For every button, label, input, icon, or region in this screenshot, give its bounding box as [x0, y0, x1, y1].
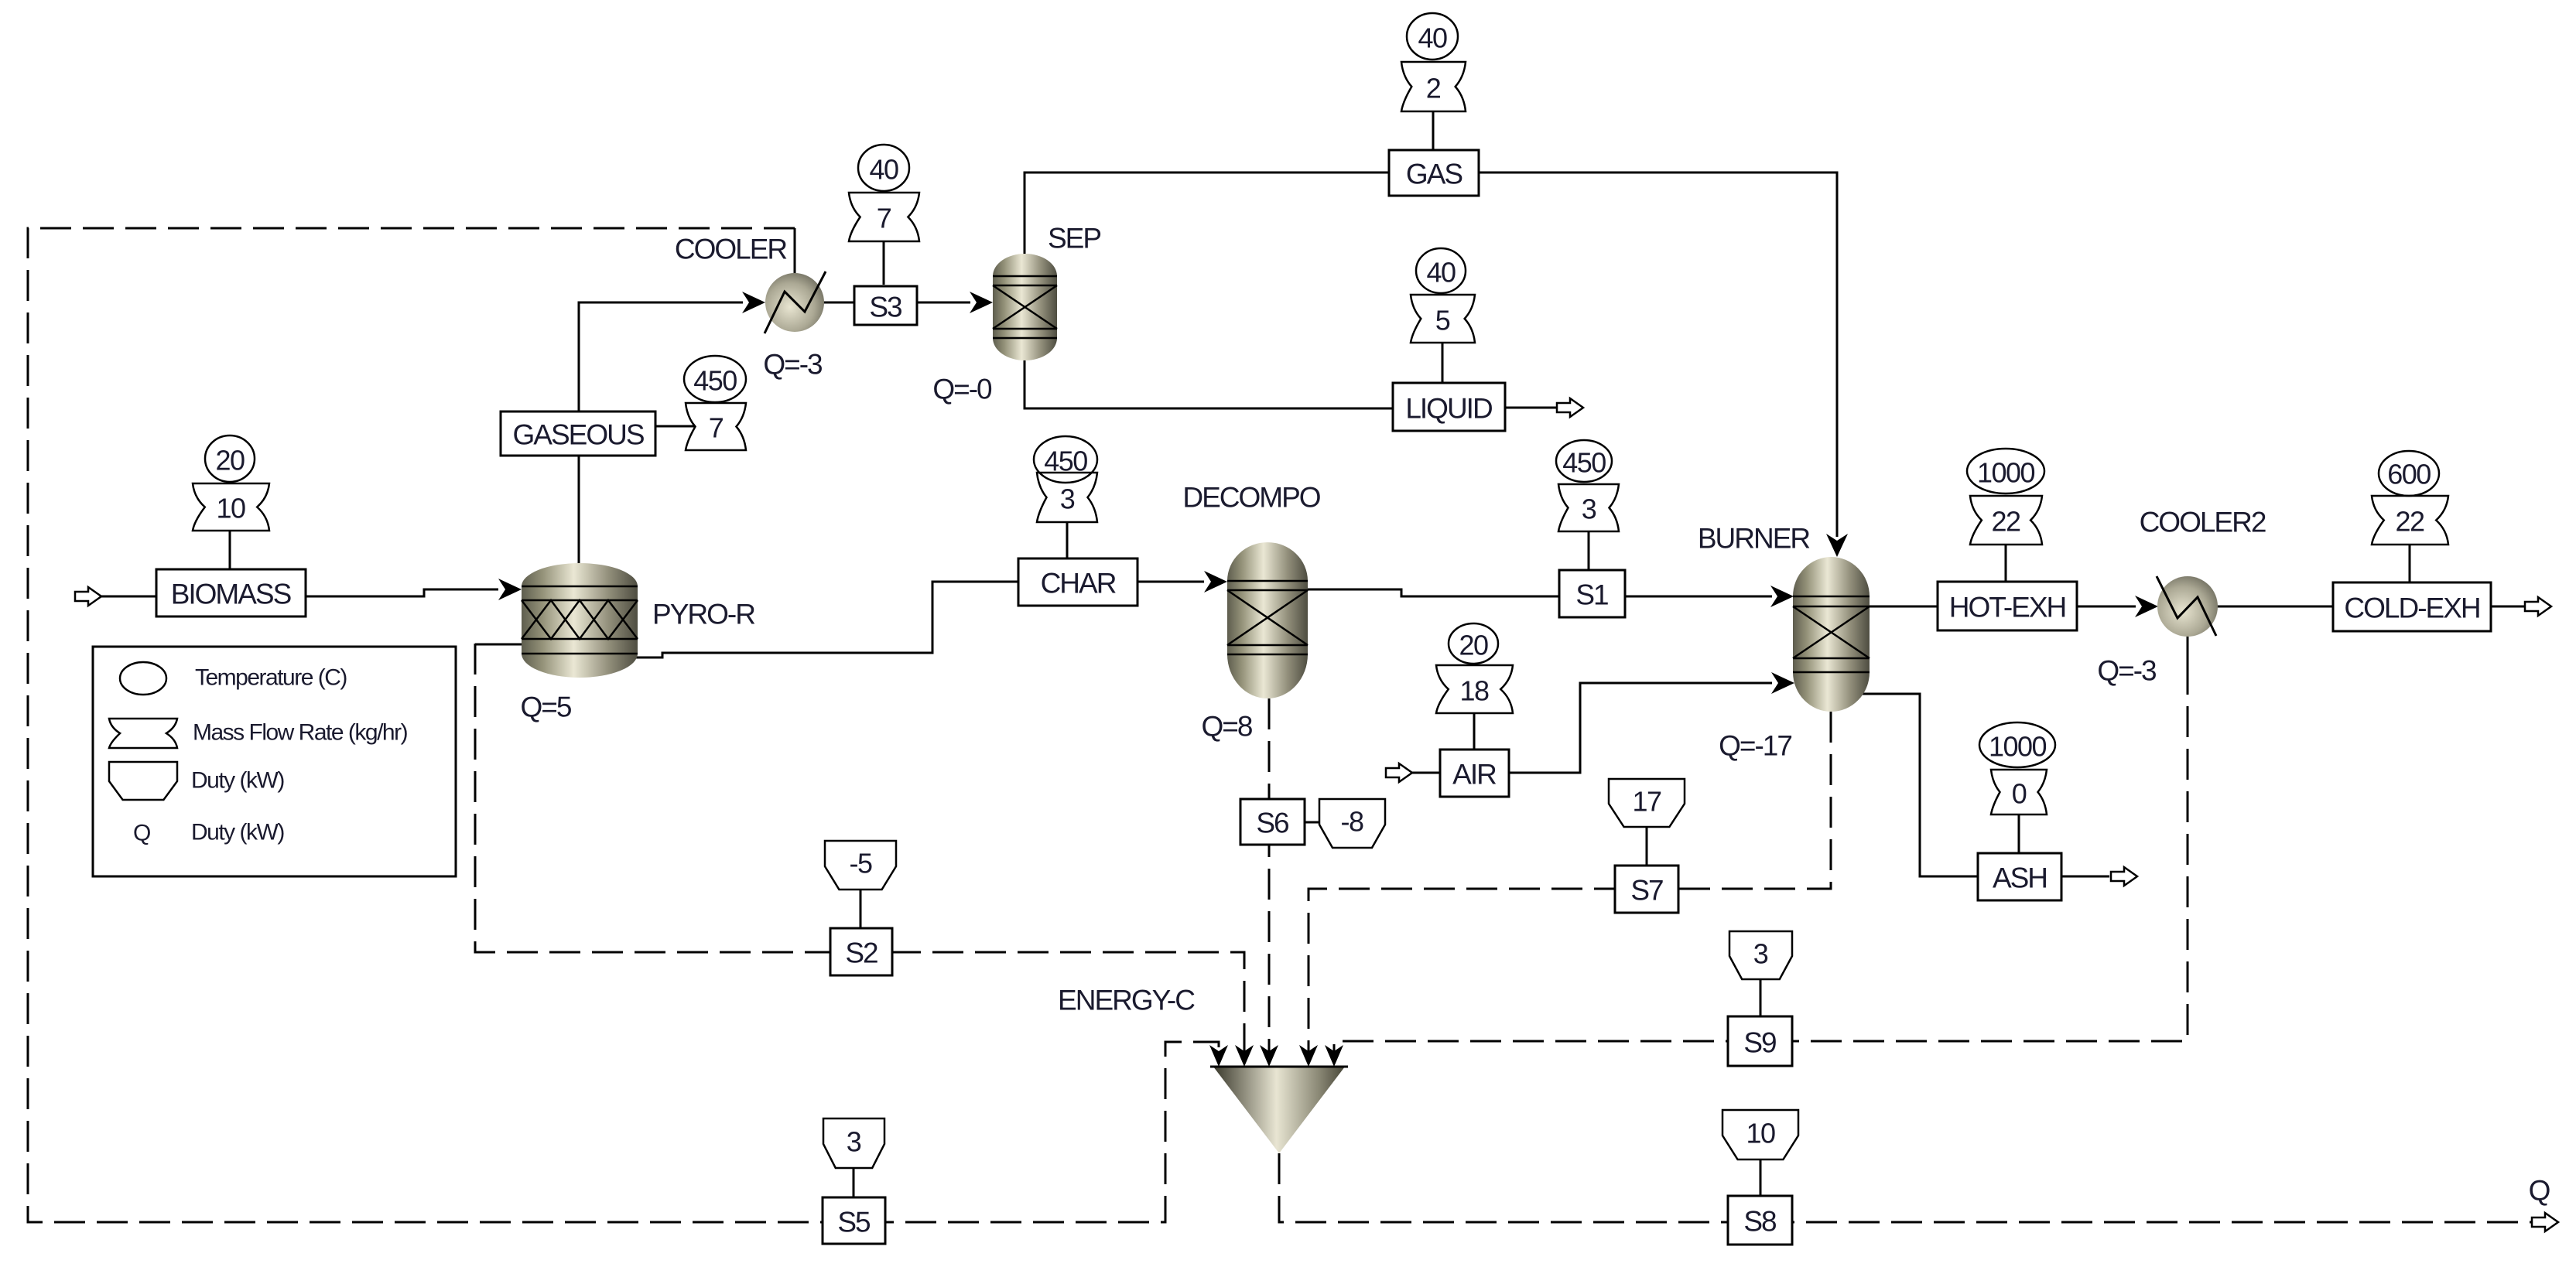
arrow out COLD-EXH — [2525, 597, 2551, 616]
svg-text:Q=8: Q=8 — [1202, 711, 1252, 743]
wire BIOMASS to PYRO-R — [306, 589, 498, 596]
wire COOLER energy stub — [794, 228, 796, 274]
arrow into COOLER — [742, 292, 765, 313]
wire S6 to -8 connector — [1305, 821, 1319, 824]
svg-text:GAS: GAS — [1406, 159, 1462, 190]
svg-text:40: 40 — [1418, 22, 1447, 54]
wire flag stem S3 — [883, 241, 885, 285]
wire energy S9: COOLER2 to ENERGY-C — [1334, 664, 2188, 1054]
wire BURNER to HOT-EXH — [1868, 606, 1938, 608]
wire flag stem S5 — [853, 1168, 855, 1197]
arrow into ENERGY-C 2 — [1235, 1045, 1254, 1067]
svg-text:5: 5 — [1435, 305, 1450, 336]
arrow into ENERGY-C 5 — [1325, 1045, 1343, 1067]
svg-text:Q=-3: Q=-3 — [763, 349, 822, 381]
svg-text:Q: Q — [133, 821, 150, 846]
flag temperature 450 (GASEOUS) — [684, 356, 746, 402]
wire flag stem CHAR — [1066, 522, 1069, 558]
legend duty symbol — [109, 762, 177, 800]
svg-text:20: 20 — [1459, 630, 1488, 661]
wire flag stem S2 — [860, 890, 862, 928]
flag massflow 3 (CHAR) — [1037, 473, 1097, 522]
flag temperature 600 (COLD-EXH) — [2379, 451, 2439, 496]
svg-text:Q: Q — [2529, 1175, 2550, 1207]
flag temperature 40 (GAS) — [1407, 13, 1458, 60]
arrow out ASH — [2111, 867, 2137, 886]
wire flag stem HOT-EXH — [2005, 545, 2007, 582]
svg-text:3: 3 — [1582, 493, 1596, 525]
flag temperature 40 (LIQUID) — [1416, 248, 1466, 293]
svg-text:S6: S6 — [1256, 808, 1288, 839]
svg-text:S1: S1 — [1575, 579, 1608, 611]
svg-text:-8: -8 — [1340, 806, 1363, 838]
svg-text:40: 40 — [869, 154, 898, 186]
svg-text:S8: S8 — [1743, 1206, 1776, 1238]
node AIR box — [1440, 750, 1509, 797]
svg-text:Q=-17: Q=-17 — [1719, 730, 1791, 762]
wire PYRO-R to CHAR — [635, 582, 1018, 657]
arrow out Q — [2532, 1213, 2558, 1231]
wire energy S2: PYRO-R to ENERGY-C — [475, 644, 1244, 1054]
arrow feed AIR — [1386, 763, 1412, 782]
wire S3 to SEP — [917, 302, 970, 304]
svg-text:DECOMPO: DECOMPO — [1182, 482, 1320, 514]
heater COOLER2 — [2157, 576, 2218, 637]
svg-text:Q=-3: Q=-3 — [2097, 655, 2156, 687]
wire AIR to BURNER — [1509, 683, 1772, 773]
svg-text:COOLER2: COOLER2 — [2140, 507, 2266, 538]
wire energy S6: DECOMPO to ENERGY-C — [1268, 698, 1271, 1054]
svg-text:LIQUID: LIQUID — [1405, 393, 1492, 425]
wire flag stem COLD-EXH — [2409, 545, 2411, 582]
wire flag stem S9 — [1760, 979, 1762, 1016]
svg-text:Q=-0: Q=-0 — [932, 374, 992, 405]
arrow out LIQUID — [1557, 398, 1583, 417]
svg-text:Temperature (C): Temperature (C) — [195, 665, 347, 691]
wire flag stem S7 — [1646, 827, 1648, 866]
wire energy S8: ENERGY-C output to Q — [1279, 1153, 2532, 1222]
arrow into PYRO-R — [498, 579, 522, 600]
svg-text:S7: S7 — [1630, 875, 1663, 907]
wire COOLER to S3 — [823, 302, 854, 304]
wire BURNER to ASH — [1859, 694, 1978, 876]
wire GASEOUS to COOLER — [579, 302, 743, 412]
svg-text:S5: S5 — [837, 1207, 871, 1238]
svg-text:40: 40 — [1426, 257, 1456, 289]
flag massflow 18 (AIR) — [1436, 665, 1513, 713]
legend temperature symbol — [120, 662, 166, 695]
arrow into ENERGY-C 4 — [1299, 1045, 1318, 1067]
svg-text:22: 22 — [1991, 506, 2020, 538]
svg-text:Duty (kW): Duty (kW) — [191, 768, 284, 794]
wire COLD-EXH outlet — [2491, 606, 2524, 608]
node S9 box — [1728, 1016, 1792, 1066]
wire HOT-EXH to COOLER2 — [2077, 606, 2136, 608]
node S3 box — [854, 286, 917, 325]
svg-text:1000: 1000 — [1977, 457, 2035, 489]
svg-text:20: 20 — [215, 445, 245, 476]
wire BIOMASS feed — [101, 596, 156, 598]
svg-text:7: 7 — [709, 412, 724, 444]
svg-text:S9: S9 — [1743, 1027, 1776, 1059]
wire flag stem S8 — [1760, 1159, 1762, 1196]
node S5 box — [823, 1197, 885, 1244]
wire SEP bottom to LIQUID — [1025, 352, 1393, 408]
wire ASH outlet — [2061, 876, 2109, 878]
svg-text:450: 450 — [1044, 446, 1087, 477]
reactor BURNER — [1793, 557, 1870, 712]
svg-text:7: 7 — [877, 203, 891, 234]
flag massflow 22 (HOT-EXH) — [1970, 496, 2042, 545]
svg-text:COLD-EXH: COLD-EXH — [2344, 593, 2479, 624]
legend box — [93, 647, 456, 876]
arrow into BURNER top — [1826, 534, 1848, 557]
content — [28, 228, 2532, 1222]
wire S1 to BURNER — [1625, 596, 1772, 598]
wire PYRO-R left outlet to S2 — [475, 644, 523, 646]
flag duty -8 (S6) — [1319, 799, 1385, 848]
arrow into COOLER2 — [2135, 596, 2158, 617]
svg-text:2: 2 — [1426, 73, 1441, 104]
node BIOMASS box — [156, 569, 306, 616]
arrow into ENERGY-C 1 — [1209, 1045, 1228, 1067]
flag temperature 20 (BIOMASS) — [205, 435, 255, 482]
flag massflow 3 (S1) — [1558, 484, 1619, 531]
flag duty -5 (S2) — [825, 841, 896, 890]
svg-text:PYRO-R: PYRO-R — [652, 599, 754, 630]
flag massflow 10 (BIOMASS) — [193, 483, 269, 531]
flag temperature 20 (AIR) — [1449, 623, 1498, 664]
flag massflow 7 (S3) — [849, 193, 919, 241]
flag temperature 1000 (HOT-EXH) — [1967, 449, 2044, 493]
separator SEP — [993, 254, 1057, 360]
mixer ENERGY-C — [1213, 1067, 1345, 1153]
arrow into SEP — [970, 292, 993, 313]
svg-text:ENERGY-C: ENERGY-C — [1058, 985, 1195, 1016]
wire AIR feed — [1412, 772, 1440, 774]
flag duty 17 (S7) — [1609, 779, 1685, 827]
node S8 box — [1728, 1196, 1792, 1245]
svg-text:Duty (kW): Duty (kW) — [191, 820, 284, 845]
flag duty 3 (S5) — [823, 1118, 884, 1168]
reactor PYRO-R — [522, 563, 638, 678]
wire CHAR to DECOMPO — [1137, 581, 1204, 583]
svg-text:3: 3 — [1060, 483, 1075, 515]
svg-text:Mass Flow Rate (kg/hr): Mass Flow Rate (kg/hr) — [193, 720, 408, 746]
node ASH box — [1978, 853, 2061, 900]
node LIQUID box — [1393, 383, 1505, 431]
svg-text:Q=5: Q=5 — [521, 692, 572, 723]
svg-text:SEP: SEP — [1048, 223, 1100, 254]
wire COOLER2 energy stub — [2187, 636, 2189, 664]
node GAS box — [1389, 150, 1479, 196]
arrow feed BIOMASS — [75, 587, 101, 606]
svg-text:0: 0 — [2012, 778, 2027, 810]
svg-text:COOLER: COOLER — [675, 234, 787, 265]
wire flag stem ASH — [2018, 814, 2020, 853]
arrowheads solid — [498, 292, 2158, 1067]
wire LIQUID outlet — [1505, 407, 1557, 409]
svg-text:HOT-EXH: HOT-EXH — [1949, 592, 2065, 623]
flag massflow 2 (GAS) — [1401, 62, 1466, 111]
wire PYRO-R top to GASEOUS — [578, 456, 580, 565]
wire DECOMPO to S1 — [1306, 589, 1559, 596]
node S7 box — [1615, 866, 1678, 913]
svg-text:BURNER: BURNER — [1698, 523, 1810, 555]
svg-text:S3: S3 — [869, 292, 901, 323]
flag duty 3 (S9) — [1729, 931, 1792, 979]
node COLD-EXH box — [2333, 582, 2491, 631]
open arrows — [75, 398, 2558, 1231]
svg-text:1000: 1000 — [1989, 731, 2047, 763]
wire flag stem GAS — [1432, 111, 1435, 150]
wire flag stem S1 — [1588, 531, 1590, 570]
node S6 box — [1240, 799, 1305, 845]
svg-text:3: 3 — [847, 1126, 861, 1158]
arrow into DECOMPO — [1204, 571, 1227, 593]
legend massflow symbol — [109, 719, 177, 748]
flag massflow 0 (ASH) — [1991, 770, 2047, 814]
flag temperature 450 (CHAR) — [1034, 436, 1097, 483]
wire flag stem BIOMASS — [229, 531, 231, 569]
arrow into ENERGY-C 3 — [1260, 1045, 1278, 1067]
flag temperature 1000 (ASH) — [1979, 722, 2055, 767]
node HOT-EXH box — [1938, 582, 2077, 630]
svg-text:10: 10 — [216, 493, 245, 524]
node CHAR box — [1018, 558, 1137, 606]
node GASEOUS box — [501, 412, 655, 456]
flag massflow 22 (COLD-EXH) — [2372, 496, 2448, 545]
flag temperature 40 (S3) — [858, 145, 909, 191]
svg-text:450: 450 — [1562, 447, 1606, 479]
node S1 box — [1559, 570, 1625, 617]
flag massflow 5 (LIQUID) — [1411, 295, 1475, 343]
wire flag stem LIQUID — [1442, 343, 1444, 383]
svg-text:ASH: ASH — [1993, 862, 2047, 894]
svg-text:S2: S2 — [845, 937, 877, 969]
wire GAS to BURNER top — [1479, 172, 1837, 537]
wire flag stem GASEOUS — [655, 425, 696, 428]
wire COOLER2 to COLD-EXH — [2216, 606, 2333, 608]
wire SEP top to GAS — [1025, 172, 1389, 255]
svg-text:CHAR: CHAR — [1041, 568, 1116, 599]
node S2 box — [830, 928, 892, 975]
svg-text:22: 22 — [2395, 506, 2424, 538]
reactor DECOMPO — [1227, 542, 1308, 698]
svg-text:450: 450 — [693, 365, 737, 397]
flag massflow 7 (GASEOUS) — [686, 403, 746, 450]
arrow into BURNER from S1 — [1770, 586, 1794, 607]
svg-text:10: 10 — [1746, 1118, 1775, 1149]
arrow into BURNER from AIR — [1771, 672, 1794, 694]
svg-text:600: 600 — [2387, 459, 2431, 490]
heater COOLER — [765, 271, 826, 333]
svg-text:AIR: AIR — [1452, 759, 1496, 791]
svg-text:GASEOUS: GASEOUS — [513, 419, 644, 451]
flag duty 10 (S8) — [1722, 1110, 1798, 1159]
svg-text:BIOMASS: BIOMASS — [171, 579, 291, 610]
svg-text:17: 17 — [1632, 786, 1661, 818]
flag temperature 450 (S1) — [1556, 440, 1612, 482]
svg-text:3: 3 — [1753, 938, 1768, 970]
svg-text:18: 18 — [1459, 675, 1489, 707]
wire flag stem AIR — [1473, 713, 1476, 750]
wire energy S7: BURNER to ENERGY-C — [1309, 712, 1831, 1054]
svg-text:-5: -5 — [849, 848, 871, 879]
wire energy S5: COOLER to ENERGY-C (dashed loop left) — [28, 228, 1219, 1222]
